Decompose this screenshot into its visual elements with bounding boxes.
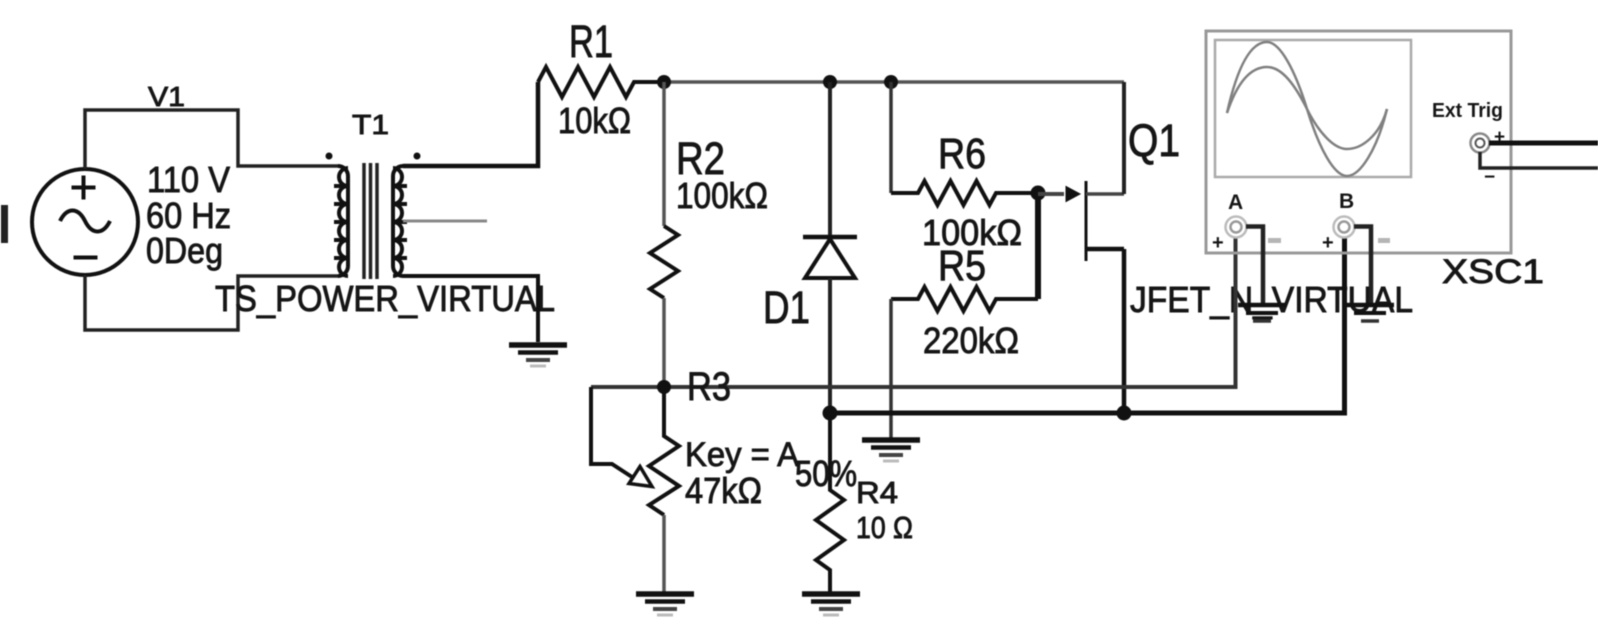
core — [364, 163, 377, 279]
connector B — [1322, 217, 1390, 255]
edge artifact line — [1, 205, 8, 243]
label Q1 — [1128, 115, 1180, 166]
svg-text:V1: V1 — [148, 81, 185, 112]
oscilloscope XSC1 box — [1206, 31, 1511, 253]
label B — [1339, 190, 1354, 213]
svg-text:0Deg: 0Deg — [146, 230, 223, 271]
center tap lead — [403, 220, 487, 223]
diode D1 — [803, 82, 857, 413]
ground R3 — [636, 594, 694, 615]
svg-text:110 V: 110 V — [147, 159, 230, 200]
resistor R2 — [650, 82, 678, 387]
svg-text:50%: 50% — [795, 453, 857, 494]
oscilloscope screen — [1215, 40, 1411, 177]
label T1 — [352, 109, 389, 140]
svg-text:XSC1: XSC1 — [1442, 253, 1544, 291]
label A — [1228, 191, 1243, 214]
ground R5 — [862, 440, 920, 461]
label Key = A — [685, 436, 799, 474]
wire T1 secondary bottom to ground — [403, 276, 538, 342]
wire R5 left to ground — [889, 299, 893, 438]
svg-text:47kΩ: 47kΩ — [685, 470, 762, 511]
transformer T1 — [326, 153, 488, 280]
wire V1 top to T1 primary — [85, 110, 338, 169]
svg-text:Q1: Q1 — [1128, 115, 1180, 166]
wire drain to top rail — [1122, 82, 1126, 194]
wire V1 bottom to T1 primary — [85, 275, 338, 330]
svg-text:+: + — [1212, 232, 1224, 254]
resistor R1 — [538, 67, 664, 97]
label R6 — [938, 130, 986, 178]
label JFET_N_VIRTUAL — [1130, 279, 1413, 320]
svg-text:220kΩ: 220kΩ — [923, 320, 1019, 361]
wire T1 secondary top to R1 — [403, 82, 538, 166]
label R3 — [687, 365, 731, 409]
label 100kΩ (R2) — [676, 175, 768, 216]
svg-text:B: B — [1339, 190, 1354, 213]
label R1 — [569, 16, 613, 67]
label D1 — [763, 282, 810, 333]
label 50% — [795, 453, 857, 494]
wire source down — [1122, 249, 1127, 413]
polarity dot primary — [326, 153, 333, 160]
node dot R3 top — [657, 380, 671, 394]
ext trig connector — [1471, 127, 1506, 188]
resistor R4 — [816, 413, 844, 592]
label Ext Trig — [1432, 100, 1503, 122]
wire top rail — [664, 80, 1124, 84]
primary winding — [338, 166, 348, 276]
label R4 — [856, 475, 898, 510]
svg-text:+: + — [1322, 232, 1334, 254]
ac source V1 — [32, 169, 138, 275]
wire R6 left branch — [889, 82, 893, 193]
label TS_POWER_VIRTUAL — [215, 278, 555, 319]
wire ext trig plus — [1489, 141, 1598, 146]
svg-text:R1: R1 — [569, 16, 613, 67]
svg-text:R6: R6 — [938, 130, 986, 178]
label XSC1 — [1442, 253, 1544, 291]
label 47kΩ — [685, 470, 762, 511]
svg-text:100kΩ: 100kΩ — [676, 175, 768, 216]
wire channel B line — [830, 235, 1345, 413]
node dot gate — [1031, 186, 1046, 201]
svg-text:R5: R5 — [938, 242, 986, 290]
label 220kΩ — [923, 320, 1019, 361]
svg-text:R3: R3 — [687, 365, 731, 409]
transistor Q1 JFET — [1038, 181, 1124, 261]
resistor R5 — [891, 287, 1038, 311]
ground scope B — [1346, 305, 1394, 321]
node dot R1/R2 — [657, 75, 671, 89]
resistor R6 — [891, 181, 1038, 205]
connector A — [1212, 217, 1281, 255]
polarity dot secondary — [414, 153, 421, 160]
node dot source/B — [1117, 406, 1132, 421]
svg-text:T1: T1 — [352, 109, 389, 140]
label R2 — [676, 133, 725, 184]
node dot D1 bottom — [823, 406, 838, 421]
svg-text:10 Ω: 10 Ω — [856, 510, 913, 545]
svg-text:TS_POWER_VIRTUAL: TS_POWER_VIRTUAL — [215, 278, 555, 319]
svg-text:A: A — [1228, 191, 1243, 214]
svg-text:10kΩ: 10kΩ — [558, 100, 631, 141]
label 10kΩ — [558, 100, 631, 141]
potentiometer R3 — [591, 387, 679, 592]
wire A hook to ground — [1246, 227, 1263, 304]
svg-text:Ext Trig: Ext Trig — [1432, 100, 1503, 122]
wire ext trig minus — [1480, 152, 1598, 168]
svg-text:Key = A: Key = A — [685, 436, 799, 474]
label R5 — [938, 242, 986, 290]
svg-text:R4: R4 — [856, 475, 898, 510]
svg-text:D1: D1 — [763, 282, 810, 333]
wire gate bus R6/R5 to gate — [1035, 193, 1041, 299]
label 10 Ω — [856, 510, 913, 545]
wire B hook to ground — [1354, 227, 1371, 304]
label 100kΩ (R6) — [922, 212, 1022, 253]
node dot D1 top — [823, 75, 837, 89]
label 0Deg — [146, 230, 223, 271]
wire channel A line — [591, 236, 1236, 387]
label 110 V — [147, 159, 230, 200]
label V1 — [148, 81, 185, 112]
ground R4 — [802, 594, 860, 615]
ground T1 — [509, 345, 567, 366]
svg-text:−: − — [1484, 167, 1495, 188]
ground scope A — [1238, 305, 1286, 321]
node dot R6 branch — [884, 75, 898, 89]
secondary winding — [393, 166, 403, 276]
label 60 Hz — [146, 195, 231, 236]
